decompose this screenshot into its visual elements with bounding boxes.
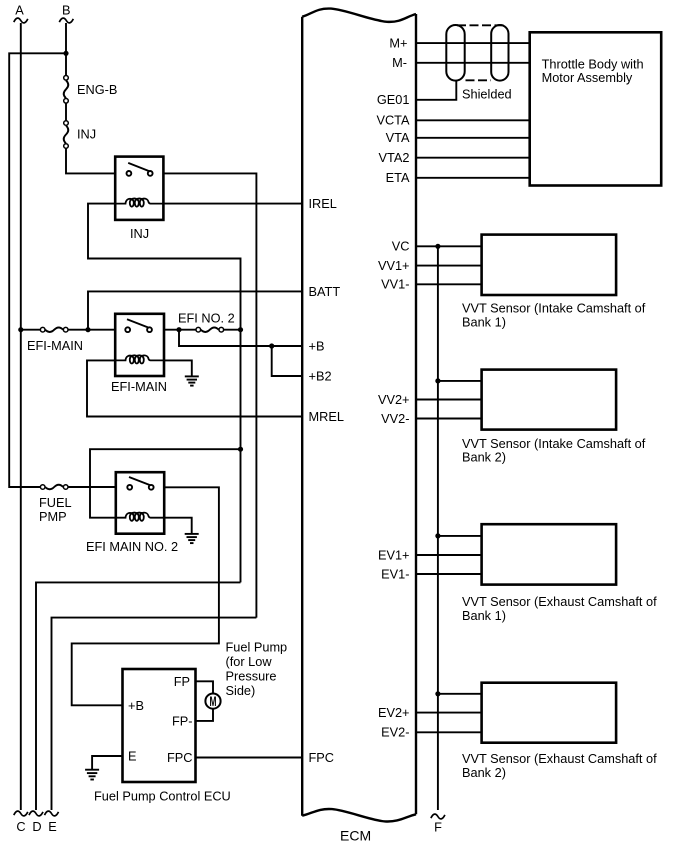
pin MREL label: [309, 409, 344, 424]
VVT sensor intake bank1 box: [482, 235, 616, 295]
junction dot +B2 tap: [269, 343, 274, 348]
wire EV1+: [416, 554, 482, 556]
svg-text:EFI-MAIN: EFI-MAIN: [27, 338, 83, 353]
wire ETA: [416, 177, 530, 179]
wire INJ coil left to EFI NO.2 net: [88, 204, 241, 330]
node F label: [434, 820, 442, 835]
wire +B2 to ECM: [272, 346, 303, 376]
wire VC: [416, 245, 482, 247]
wire B to INJ relay: [66, 149, 115, 174]
wire +B to ECM: [179, 330, 302, 346]
svg-text:Bank 2): Bank 2): [462, 450, 506, 465]
ECM body: [302, 9, 416, 822]
pin VCTA label: [376, 113, 410, 128]
svg-text:VV1+: VV1+: [378, 258, 410, 273]
break symbol wire C bottom: [14, 811, 28, 816]
wire EFI MAIN NO.2 coil to ground: [164, 518, 192, 534]
svg-text:FP: FP: [174, 674, 190, 689]
svg-text:A: A: [15, 3, 24, 18]
junction dot VC: [435, 244, 440, 249]
shield capsule left: [446, 25, 464, 81]
svg-text:VV1-: VV1-: [381, 277, 409, 292]
wire EFI NO.2 net riser: [240, 330, 242, 583]
svg-text:EV1-: EV1-: [381, 566, 409, 581]
pin BATT label: [309, 284, 341, 299]
pin EV2+ label: [378, 705, 410, 720]
pin EV2- label: [381, 725, 409, 740]
pin GE01 label: [377, 92, 410, 107]
pin EV1+ label: [378, 547, 410, 562]
pin ETA label: [386, 170, 410, 185]
wire VV1-: [416, 283, 482, 285]
junction dot EV2 feed: [435, 691, 440, 696]
fuse EFI-MAIN: [21, 327, 115, 332]
ENG-B value label: [77, 82, 117, 97]
svg-text:Pressure: Pressure: [226, 669, 277, 684]
pin +B2 label: [309, 368, 332, 383]
pin FPC label: [167, 750, 193, 765]
svg-text:VTA: VTA: [386, 130, 410, 145]
junction dot EV1 feed: [435, 533, 440, 538]
INJ fuse value label: [77, 127, 96, 142]
break symbol wire D bottom: [29, 811, 43, 816]
wire IREL to ECM: [163, 203, 302, 205]
shield dashed bottom: [466, 79, 492, 81]
svg-text:E: E: [128, 749, 137, 764]
svg-text:VVT Sensor (Intake Camshaft of: VVT Sensor (Intake Camshaft of: [462, 300, 646, 315]
wire VCTA: [416, 119, 530, 121]
fuse EFI NO. 2: [196, 327, 241, 332]
node B label: [62, 3, 71, 18]
svg-text:INJ: INJ: [77, 127, 96, 142]
svg-text:VVT Sensor (Exhaust Camshaft o: VVT Sensor (Exhaust Camshaft of: [462, 751, 657, 766]
wire EFI MAIN NO.2 switch out to fuel pump ECU: [72, 487, 219, 705]
svg-text:VCTA: VCTA: [376, 113, 410, 128]
junction dot on wire B: [63, 51, 68, 56]
VVT sensor intake bank1 label: [462, 300, 646, 329]
EFI NO. 2 fuse value label: [178, 311, 235, 326]
break symbol wire E bottom: [45, 811, 59, 816]
VVT sensor exhaust bank1 label: [462, 594, 657, 623]
Shielded label: [462, 86, 512, 101]
wire FP- to motor: [196, 709, 214, 721]
svg-text:VV2-: VV2-: [381, 411, 409, 426]
relay EFI-MAIN label: [111, 379, 167, 394]
junction dot EFI NO.2 output: [238, 327, 243, 332]
junction dot wire A / EFI-MAIN fuse: [18, 327, 23, 332]
wire B upper segment: [65, 23, 67, 75]
relay EFI MAIN NO. 2: [116, 472, 164, 534]
svg-text:Side): Side): [226, 683, 256, 698]
wire FP to motor: [196, 681, 214, 693]
svg-text:ECM: ECM: [340, 828, 371, 844]
svg-text:BATT: BATT: [309, 284, 341, 299]
relay INJ: [115, 157, 163, 220]
fuse INJ: [64, 121, 69, 149]
wire between fuses: [65, 103, 67, 120]
svg-text:INJ: INJ: [130, 226, 149, 241]
wire INJ switch out to E riser: [163, 173, 256, 617]
pin E label: [128, 749, 137, 764]
svg-text:EFI-MAIN: EFI-MAIN: [111, 379, 167, 394]
wire GE01 to shield: [416, 81, 456, 100]
svg-text:B: B: [62, 3, 71, 18]
pin VTA2 label: [379, 150, 410, 165]
wire EV2-: [416, 731, 482, 733]
pin VC label: [392, 239, 410, 254]
fuse ENG-B: [64, 76, 69, 104]
pin IREL label: [309, 196, 337, 211]
node E label: [48, 819, 57, 834]
svg-text:(for Low: (for Low: [226, 654, 273, 669]
svg-text:ENG-B: ENG-B: [77, 82, 117, 97]
wire EV1 feed: [438, 535, 482, 537]
relay EFI MAIN NO. 2 label: [86, 539, 178, 554]
svg-text:FPC: FPC: [309, 750, 335, 765]
fuel pump control ECU label: [94, 789, 231, 804]
break symbol wire F bottom: [431, 814, 445, 819]
EFI-MAIN fuse value label: [27, 338, 83, 353]
fuel pump control ECU box: [123, 669, 196, 782]
pin EV1- label: [381, 566, 409, 581]
motor M fuel pump: [205, 694, 220, 709]
svg-text:MREL: MREL: [309, 409, 344, 424]
pin +B label: [309, 338, 325, 353]
svg-text:EV1+: EV1+: [378, 547, 410, 562]
fuel pump note label: [226, 640, 288, 699]
relay INJ label: [130, 226, 149, 241]
svg-text:EV2-: EV2-: [381, 725, 409, 740]
wire FPC to ECM: [196, 757, 303, 759]
svg-text:Bank 1): Bank 1): [462, 608, 506, 623]
node D label: [32, 819, 41, 834]
svg-text:VTA2: VTA2: [379, 150, 410, 165]
wire D: [36, 582, 241, 810]
wire M-: [416, 62, 530, 64]
wire EV1-: [416, 573, 482, 575]
wire relay EFI-MAIN out: [164, 329, 196, 331]
svg-text:VC: VC: [392, 239, 410, 254]
svg-text:Fuel Pump Control ECU: Fuel Pump Control ECU: [94, 789, 231, 804]
svg-text:+B: +B: [309, 338, 325, 353]
svg-text:FPC: FPC: [167, 750, 193, 765]
wire VV2-: [416, 418, 482, 420]
break symbol wire A top: [14, 18, 28, 23]
pin M+ label: [389, 36, 407, 51]
svg-text:Motor Assembly: Motor Assembly: [542, 70, 633, 85]
wire EFI-MAIN coil to ground: [164, 360, 192, 376]
wire to EFI MAIN NO.2 coil: [90, 449, 241, 518]
wire E: [52, 618, 257, 810]
junction dot BATT tap: [85, 327, 90, 332]
shield capsule right: [491, 25, 508, 81]
svg-text:FUEL: FUEL: [39, 495, 72, 510]
svg-text:Throttle Body with: Throttle Body with: [542, 56, 644, 71]
pin VV1+ label: [378, 258, 410, 273]
ground fuel pump control ECU: [85, 770, 99, 780]
VVT sensor exhaust bank1 box: [482, 524, 616, 584]
break symbol wire B top: [59, 18, 73, 23]
wire VV1+: [416, 265, 482, 267]
svg-text:E: E: [48, 819, 57, 834]
svg-text:ETA: ETA: [386, 170, 410, 185]
svg-text:PMP: PMP: [39, 509, 67, 524]
relay EFI-MAIN: [115, 314, 164, 376]
pin M- label: [392, 55, 407, 70]
pin FPC label: [309, 750, 335, 765]
svg-text:M+: M+: [389, 36, 407, 51]
wire VTA: [416, 137, 530, 139]
pin VV2+ label: [378, 392, 410, 407]
VVT sensor exhaust bank2 label: [462, 751, 657, 780]
svg-text:F: F: [434, 820, 442, 835]
pin VV2- label: [381, 411, 409, 426]
svg-text:EV2+: EV2+: [378, 705, 410, 720]
node C label: [16, 819, 25, 834]
svg-text:Fuel Pump: Fuel Pump: [226, 640, 288, 655]
wire A vertical: [20, 23, 22, 810]
wire BATT to ECM: [88, 291, 302, 329]
junction dot VVT2 feed: [435, 378, 440, 383]
svg-text:FP-: FP-: [172, 713, 193, 728]
FUEL PMP fuse value label: [39, 495, 72, 524]
svg-text:EFI NO. 2: EFI NO. 2: [178, 311, 235, 326]
svg-text:+B: +B: [128, 698, 144, 713]
shield dashed top: [457, 24, 507, 26]
svg-text:VVT Sensor (Exhaust Camshaft o: VVT Sensor (Exhaust Camshaft of: [462, 594, 657, 609]
ground EFI-MAIN relay: [185, 376, 199, 385]
throttle body label: [542, 56, 644, 85]
svg-text:GE01: GE01: [377, 92, 410, 107]
svg-text:+B2: +B2: [309, 368, 332, 383]
svg-text:EFI MAIN NO. 2: EFI MAIN NO. 2: [86, 539, 178, 554]
pin FP label: [174, 674, 190, 689]
junction dot coil tap: [238, 447, 243, 452]
svg-text:M-: M-: [392, 55, 407, 70]
wire VVT2 feed: [438, 380, 482, 382]
VVT sensor intake bank2 box: [482, 370, 616, 430]
pin VV1- label: [381, 277, 409, 292]
wire VV2+: [416, 399, 482, 401]
ECM label: [340, 828, 371, 844]
VVT sensor intake bank2 label: [462, 436, 646, 465]
svg-text:Bank 2): Bank 2): [462, 765, 506, 780]
wire VTA2: [416, 157, 530, 159]
junction dot +B tap: [176, 327, 181, 332]
svg-text:Bank 1): Bank 1): [462, 314, 506, 329]
svg-text:M: M: [210, 695, 217, 710]
svg-text:Shielded: Shielded: [462, 86, 512, 101]
fuse FUEL PMP: [40, 485, 115, 490]
VVT sensor exhaust bank2 box: [482, 683, 616, 743]
ground EFI MAIN NO.2 relay: [185, 534, 199, 543]
pin VTA label: [386, 130, 410, 145]
wire MREL coil to ECM: [87, 360, 302, 416]
pin FP- label: [172, 713, 193, 728]
wire from B junction to left rail: [9, 53, 66, 487]
pin +B label: [128, 698, 144, 713]
wire EV2 feed: [438, 693, 482, 695]
wire EV2+: [416, 712, 482, 714]
svg-text:C: C: [16, 819, 25, 834]
svg-text:IREL: IREL: [309, 196, 337, 211]
wire M+: [416, 42, 530, 44]
wire E pin to ground: [92, 756, 122, 770]
svg-text:D: D: [32, 819, 41, 834]
throttle body box: [530, 32, 662, 185]
node A label: [15, 3, 24, 18]
sensor feed riser F: [437, 246, 439, 810]
svg-text:VV2+: VV2+: [378, 392, 410, 407]
